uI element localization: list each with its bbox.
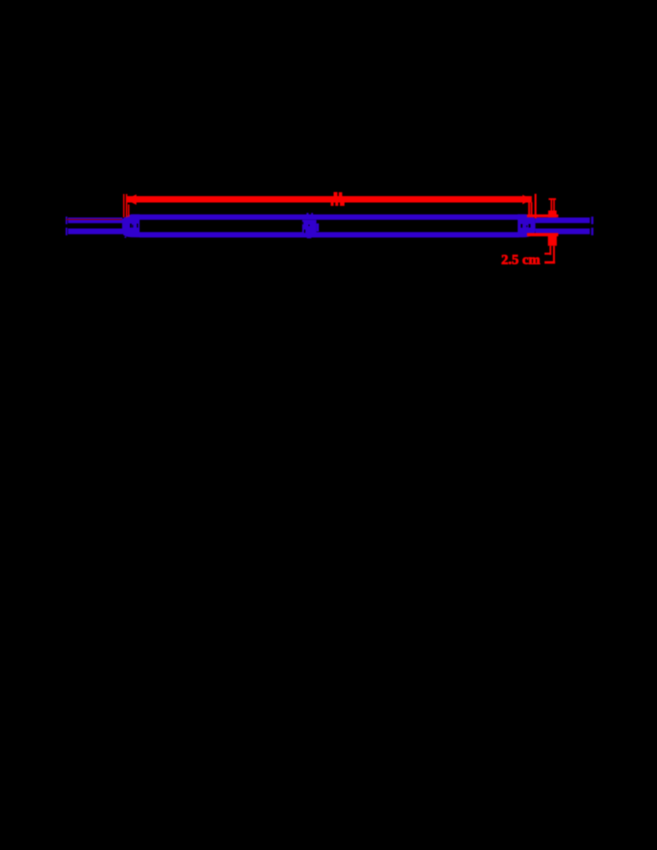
svg-text:2.5 cm: 2.5 cm <box>501 253 540 268</box>
